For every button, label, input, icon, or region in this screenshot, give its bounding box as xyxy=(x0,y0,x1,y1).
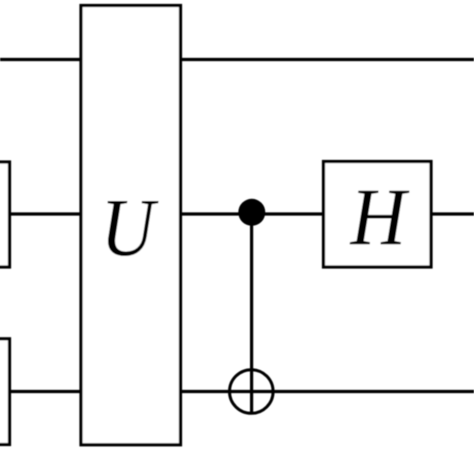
svg-text:H: H xyxy=(350,172,410,263)
gate U box xyxy=(81,6,181,445)
gate box (left, bottom wire, clipped at left edge) xyxy=(0,339,10,445)
wire q0 (top qubit line) xyxy=(0,58,474,61)
gate H box xyxy=(324,162,432,268)
wire q1 (middle qubit line) xyxy=(0,212,474,215)
CNOT target circle on q2 xyxy=(230,370,274,414)
gate box (left, middle wire, clipped at left edge) xyxy=(0,162,10,267)
wire q2 (bottom qubit line) xyxy=(0,390,474,393)
control dot on q1 xyxy=(238,199,265,226)
wire CNOT vertical control line xyxy=(250,213,253,415)
svg-text:U: U xyxy=(101,182,160,273)
